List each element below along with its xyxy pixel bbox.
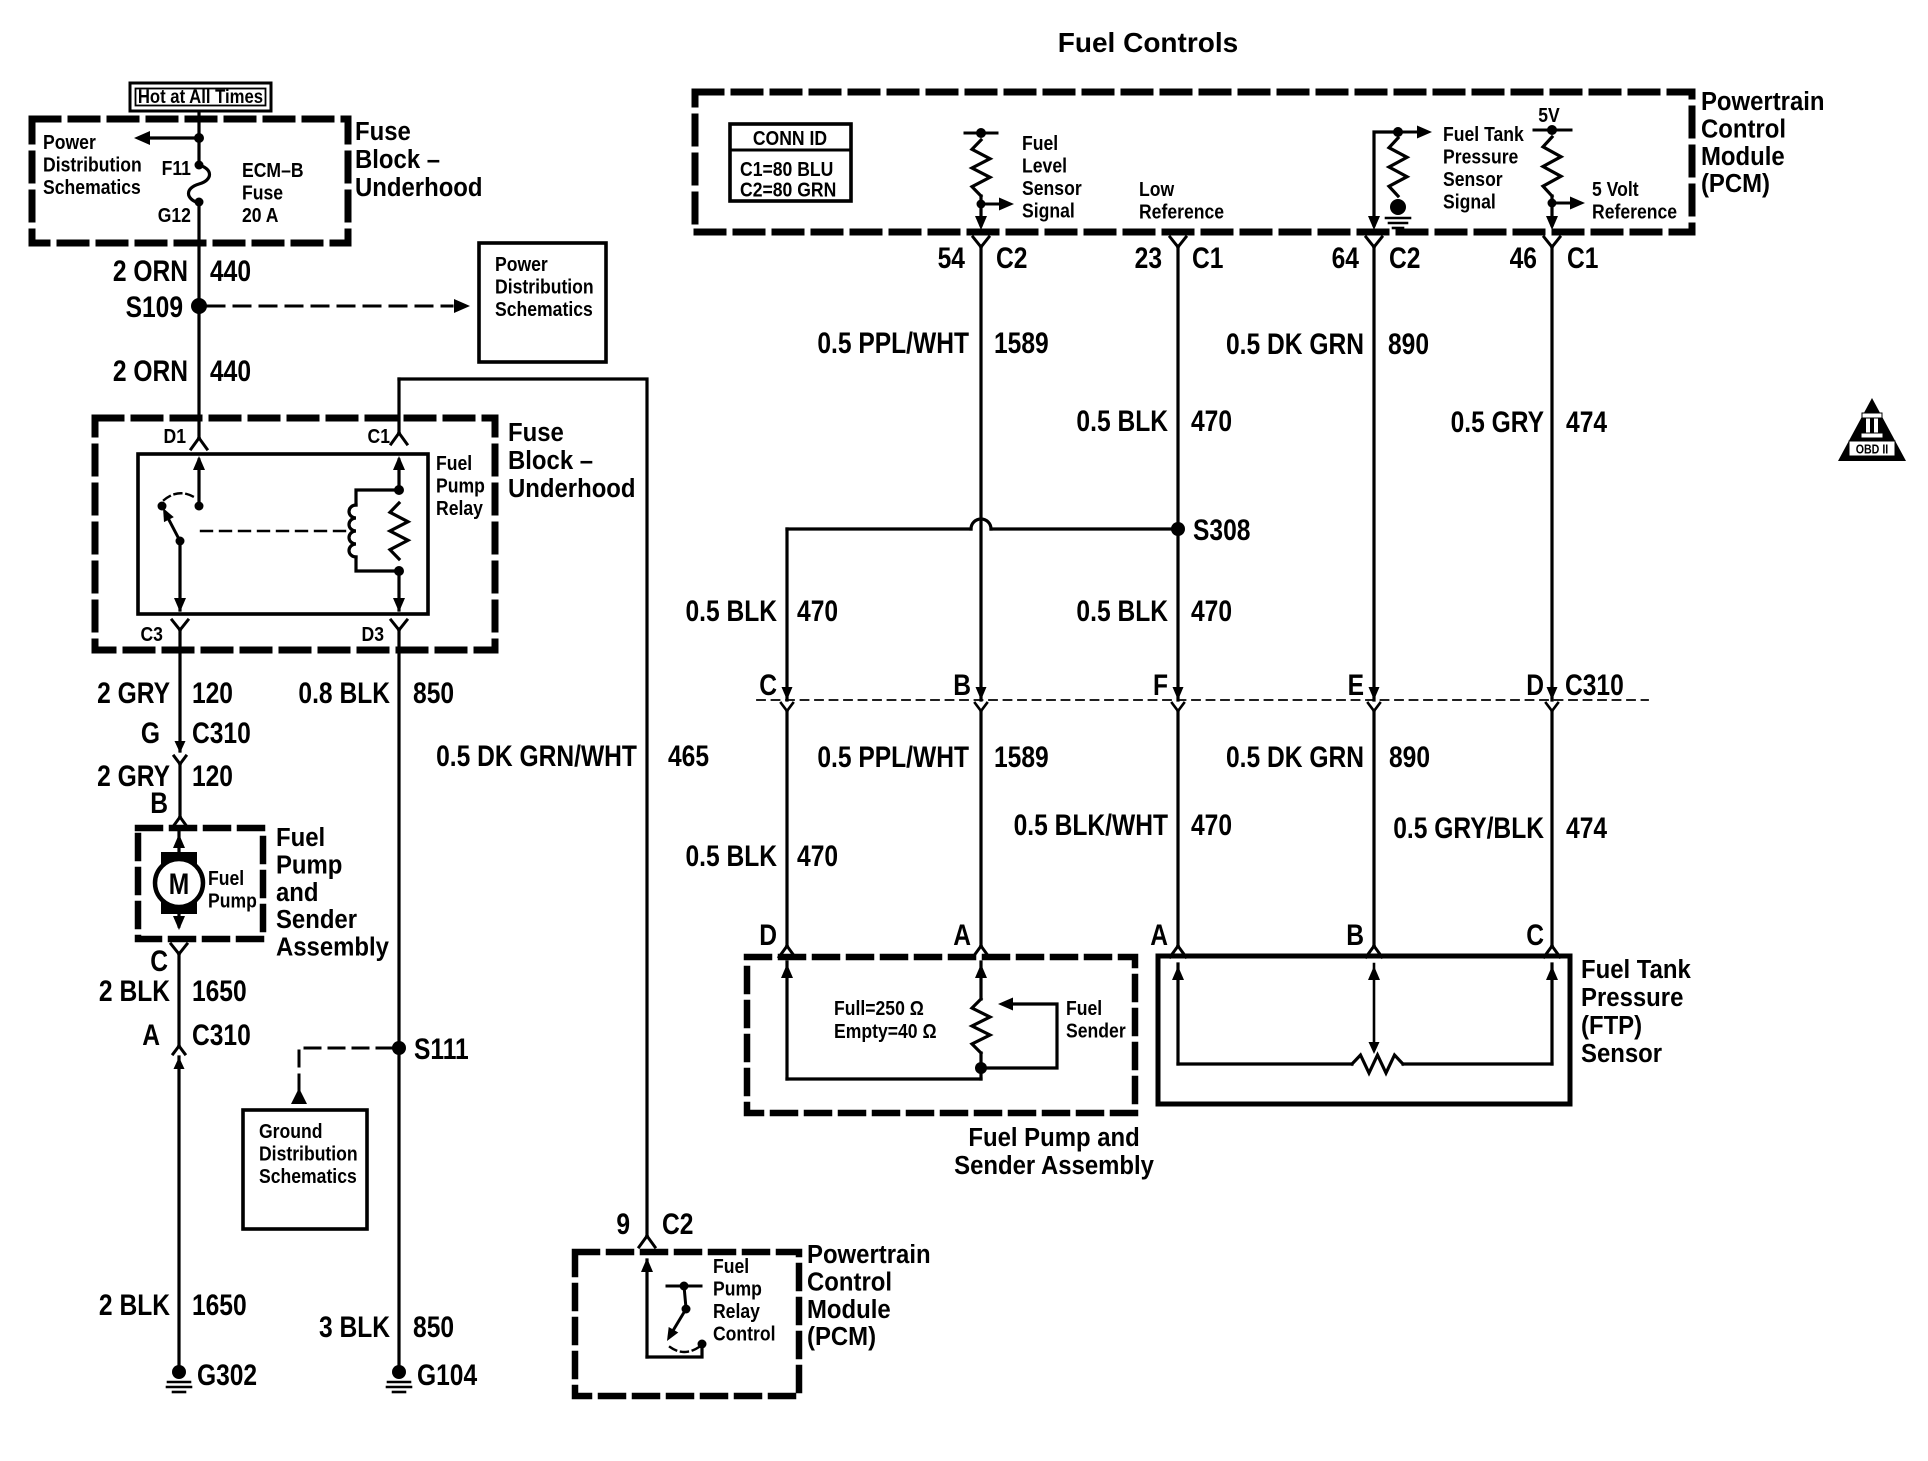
svg-text:G12: G12 xyxy=(158,204,191,226)
wire: relay C1 up and over to PCM pin 9 xyxy=(399,379,647,1235)
ground G104 xyxy=(392,1365,406,1379)
svg-text:5V: 5V xyxy=(1538,104,1560,126)
svg-text:Full=250 Ω: Full=250 Ω xyxy=(834,997,924,1019)
svg-text:C1=80 BLU: C1=80 BLU xyxy=(740,158,833,180)
svg-text:Pump: Pump xyxy=(713,1277,762,1299)
svg-text:0.5 BLK: 0.5 BLK xyxy=(1076,404,1168,438)
svg-text:(FTP): (FTP) xyxy=(1581,1011,1642,1040)
svg-text:C: C xyxy=(150,944,168,978)
svg-text:120: 120 xyxy=(192,759,233,793)
svg-text:Relay: Relay xyxy=(713,1300,760,1322)
svg-text:G104: G104 xyxy=(417,1358,478,1392)
svg-text:470: 470 xyxy=(797,594,838,628)
fuel pump relay control driver switch xyxy=(645,1260,648,1357)
svg-text:Fuse: Fuse xyxy=(508,418,564,447)
pin 54 C2 xyxy=(973,237,981,247)
svg-text:850: 850 xyxy=(413,676,454,710)
svg-text:C1: C1 xyxy=(368,425,390,447)
wire: branch arrow to power distribution (left) xyxy=(150,136,199,139)
relay switch (D1 to C3) xyxy=(197,460,200,506)
svg-text:D: D xyxy=(1526,668,1544,702)
dashed reference from S111 to ground distribution xyxy=(299,1048,392,1086)
svg-text:Module: Module xyxy=(1701,142,1785,171)
splice S308 and branch wire xyxy=(787,527,971,530)
svg-text:0.5 BLK: 0.5 BLK xyxy=(1076,594,1168,628)
relay coil and resistor (C1 to D3) xyxy=(397,460,400,490)
svg-text:Fuel: Fuel xyxy=(276,823,325,852)
svg-text:C1: C1 xyxy=(1567,241,1598,275)
svg-text:Schematics: Schematics xyxy=(259,1165,357,1187)
svg-text:Sensor: Sensor xyxy=(1443,168,1503,190)
svg-text:1650: 1650 xyxy=(192,974,247,1008)
svg-text:B: B xyxy=(953,668,971,702)
svg-text:C2: C2 xyxy=(1389,241,1420,275)
reference box: Ground Distribution Schematics xyxy=(243,1110,367,1229)
svg-text:474: 474 xyxy=(1566,405,1608,439)
svg-text:Fuse: Fuse xyxy=(355,117,411,146)
svg-text:G: G xyxy=(141,716,160,750)
svg-text:474: 474 xyxy=(1566,811,1608,845)
svg-text:9: 9 xyxy=(616,1207,630,1241)
svg-text:Sender: Sender xyxy=(1066,1019,1126,1041)
wire: pin 54 to connector C310 pin B (with hop at S308 line) xyxy=(979,246,982,700)
svg-text:1589: 1589 xyxy=(994,326,1049,360)
fuse block underhood dashed box (top) xyxy=(32,119,348,243)
svg-text:Schematics: Schematics xyxy=(495,298,593,320)
fuel level sensor pullup resistor xyxy=(965,132,997,135)
svg-text:2 GRY: 2 GRY xyxy=(97,676,170,710)
svg-text:890: 890 xyxy=(1389,740,1430,774)
pin 23 C1 xyxy=(1170,237,1178,247)
svg-text:0.5 DK GRN: 0.5 DK GRN xyxy=(1226,740,1364,774)
svg-text:C310: C310 xyxy=(192,716,251,750)
svg-text:Schematics: Schematics xyxy=(43,176,141,198)
wire: fuel pump C to C310 pin A xyxy=(177,953,180,1044)
svg-text:465: 465 xyxy=(668,739,709,773)
svg-text:C: C xyxy=(1526,918,1544,952)
svg-text:Sensor: Sensor xyxy=(1581,1039,1662,1068)
svg-text:A: A xyxy=(142,1018,160,1052)
svg-text:Underhood: Underhood xyxy=(508,474,635,503)
svg-text:470: 470 xyxy=(1191,808,1232,842)
svg-text:C1: C1 xyxy=(1192,241,1223,275)
pin 46 C1 xyxy=(1544,237,1552,247)
svg-text:850: 850 xyxy=(413,1310,454,1344)
svg-text:Fuse: Fuse xyxy=(242,181,283,203)
svg-text:0.5 GRY: 0.5 GRY xyxy=(1451,405,1544,439)
svg-text:Powertrain: Powertrain xyxy=(807,1240,931,1269)
fuse F11 ECM-B 20A xyxy=(195,161,204,170)
svg-text:120: 120 xyxy=(192,676,233,710)
svg-text:A: A xyxy=(1150,918,1168,952)
svg-text:Sender Assembly: Sender Assembly xyxy=(954,1151,1154,1180)
wire: pin 64 to C310 pin E xyxy=(1372,246,1375,700)
svg-text:and: and xyxy=(276,878,319,907)
svg-text:Control: Control xyxy=(713,1322,776,1344)
pin C fuel pump xyxy=(171,944,179,954)
svg-text:G302: G302 xyxy=(197,1358,257,1392)
svg-text:D: D xyxy=(759,918,777,952)
svg-text:B: B xyxy=(150,786,168,820)
svg-text:Distribution: Distribution xyxy=(43,153,142,175)
fuel sender variable resistor xyxy=(785,962,788,1079)
svg-text:Fuel: Fuel xyxy=(436,452,472,474)
svg-text:OBD II: OBD II xyxy=(1856,441,1889,456)
svg-text:470: 470 xyxy=(797,839,838,873)
wire: C310 to fuel pump B xyxy=(178,764,181,817)
svg-text:440: 440 xyxy=(210,254,251,288)
svg-text:470: 470 xyxy=(1191,594,1232,628)
svg-text:(PCM): (PCM) xyxy=(807,1322,876,1351)
svg-text:F: F xyxy=(1153,668,1168,702)
svg-text:46: 46 xyxy=(1510,241,1537,275)
svg-text:Pump: Pump xyxy=(208,889,257,911)
ground G302 xyxy=(172,1365,186,1379)
svg-text:1650: 1650 xyxy=(192,1288,247,1322)
fuel pump motor M xyxy=(177,832,180,852)
reference box: Power Distribution Schematics xyxy=(479,243,606,362)
svg-text:Power: Power xyxy=(495,253,548,275)
svg-text:Signal: Signal xyxy=(1022,199,1075,221)
svg-text:Fuel: Fuel xyxy=(1066,997,1102,1019)
svg-text:D3: D3 xyxy=(362,623,384,645)
svg-text:Power: Power xyxy=(43,131,96,153)
svg-text:470: 470 xyxy=(1191,404,1232,438)
svg-text:Fuel: Fuel xyxy=(208,867,244,889)
svg-text:Empty=40 Ω: Empty=40 Ω xyxy=(834,1020,937,1042)
connector C310 dashed line xyxy=(757,699,1648,701)
svg-text:Underhood: Underhood xyxy=(355,173,482,202)
svg-text:440: 440 xyxy=(210,354,251,388)
wire: hot feed into fuse block xyxy=(197,112,200,165)
svg-text:Fuel Controls: Fuel Controls xyxy=(1058,27,1238,58)
fuel tank pressure sensor input xyxy=(1374,132,1398,225)
svg-text:F11: F11 xyxy=(162,157,191,179)
svg-text:890: 890 xyxy=(1388,327,1429,361)
wire: C310 pin D to FTP pin C xyxy=(1550,711,1553,946)
FTP potentiometer xyxy=(1176,964,1179,1064)
svg-text:Relay: Relay xyxy=(436,497,483,519)
relay actuation dashed link xyxy=(201,530,345,532)
wire: C310 pin A to ground G302 xyxy=(177,1057,180,1366)
svg-text:Powertrain: Powertrain xyxy=(1701,87,1825,116)
svg-text:Level: Level xyxy=(1022,154,1067,176)
svg-text:(PCM): (PCM) xyxy=(1701,169,1770,198)
wire: S308 branch down to C310 pin C xyxy=(785,529,788,700)
svg-text:0.5 BLK: 0.5 BLK xyxy=(685,839,777,873)
label box: Hot at All Times xyxy=(130,83,271,111)
CONN ID table xyxy=(730,124,851,201)
svg-text:Fuel: Fuel xyxy=(1022,132,1058,154)
svg-text:2 BLK: 2 BLK xyxy=(99,974,170,1008)
svg-text:2 ORN: 2 ORN xyxy=(113,254,188,288)
svg-text:2 BLK: 2 BLK xyxy=(99,1288,170,1322)
svg-text:E: E xyxy=(1348,668,1364,702)
wire: C310 pin F to FTP pin A xyxy=(1176,711,1179,946)
fuel pump assembly dashed box xyxy=(138,828,263,939)
svg-text:Fuel Pump and: Fuel Pump and xyxy=(968,1123,1139,1152)
svg-text:C2: C2 xyxy=(996,241,1027,275)
svg-text:Pressure: Pressure xyxy=(1443,145,1518,167)
svg-text:Pump: Pump xyxy=(436,474,485,496)
wire: pin 46 to C310 pin D xyxy=(1550,246,1553,700)
svg-text:M: M xyxy=(169,867,189,901)
powertrain control module dashed box (top) xyxy=(695,92,1692,232)
svg-text:0.8 BLK: 0.8 BLK xyxy=(298,676,390,710)
svg-text:D1: D1 xyxy=(164,425,186,447)
svg-text:Reference: Reference xyxy=(1592,200,1677,222)
svg-text:C310: C310 xyxy=(1565,668,1624,702)
svg-text:C2: C2 xyxy=(662,1207,693,1241)
svg-text:0.5 GRY/BLK: 0.5 GRY/BLK xyxy=(1393,811,1544,845)
wire: S111 to ground G104 xyxy=(397,1048,400,1366)
svg-text:Hot at All Times: Hot at All Times xyxy=(138,86,263,107)
svg-text:64: 64 xyxy=(1332,241,1360,275)
svg-text:0.5 PPL/WHT: 0.5 PPL/WHT xyxy=(817,326,969,360)
svg-text:CONN ID: CONN ID xyxy=(753,127,827,149)
fuel pump and sender assembly dashed box xyxy=(747,957,1135,1113)
svg-text:Pressure: Pressure xyxy=(1581,983,1683,1012)
PCM bottom dashed box xyxy=(575,1252,799,1396)
svg-text:C3: C3 xyxy=(140,623,162,645)
svg-text:S308: S308 xyxy=(1193,513,1250,547)
svg-text:23: 23 xyxy=(1135,241,1162,275)
splice S111 xyxy=(392,1041,406,1055)
svg-text:C: C xyxy=(759,668,777,702)
wire: C310 pin E to FTP pin B xyxy=(1372,711,1375,946)
svg-text:Assembly: Assembly xyxy=(276,933,389,962)
svg-text:Control: Control xyxy=(1701,115,1786,144)
svg-text:C310: C310 xyxy=(192,1018,251,1052)
svg-text:Block –: Block – xyxy=(355,145,440,174)
svg-text:S111: S111 xyxy=(414,1032,469,1066)
pin 64 C2 xyxy=(1366,237,1374,247)
svg-text:Sensor: Sensor xyxy=(1022,177,1082,199)
svg-text:S109: S109 xyxy=(126,290,183,324)
svg-text:0.5 BLK/WHT: 0.5 BLK/WHT xyxy=(1014,808,1169,842)
wire: S109 to fuse block relay D1 xyxy=(197,306,200,437)
svg-text:Fuel Tank: Fuel Tank xyxy=(1581,955,1691,984)
fuel pump relay box xyxy=(138,454,428,614)
svg-text:20 A: 20 A xyxy=(242,204,279,226)
svg-text:0.5 BLK: 0.5 BLK xyxy=(685,594,777,628)
svg-text:ECM–B: ECM–B xyxy=(242,159,304,181)
svg-text:0.5 PPL/WHT: 0.5 PPL/WHT xyxy=(817,740,969,774)
svg-text:Block –: Block – xyxy=(508,446,593,475)
svg-text:2 ORN: 2 ORN xyxy=(113,354,188,388)
OBD II symbol xyxy=(1838,398,1906,461)
svg-text:Reference: Reference xyxy=(1139,200,1224,222)
svg-text:Low: Low xyxy=(1139,178,1175,200)
svg-text:5 Volt: 5 Volt xyxy=(1592,178,1639,200)
svg-text:Signal: Signal xyxy=(1443,190,1496,212)
svg-text:0.5 DK GRN: 0.5 DK GRN xyxy=(1226,327,1364,361)
wire: pin 23 to S308 and C310 pin F xyxy=(1176,246,1179,700)
svg-text:Fuel Tank: Fuel Tank xyxy=(1443,123,1524,145)
wire: C310 pin C to sender pin D xyxy=(785,711,788,946)
svg-text:Fuel: Fuel xyxy=(713,1255,749,1277)
splice S109 xyxy=(191,298,207,314)
svg-text:A: A xyxy=(953,918,971,952)
svg-text:C2=80 GRN: C2=80 GRN xyxy=(740,178,836,200)
svg-text:54: 54 xyxy=(938,241,966,275)
svg-text:Control: Control xyxy=(807,1268,892,1297)
svg-text:Sender: Sender xyxy=(276,905,357,934)
svg-text:Module: Module xyxy=(807,1295,891,1324)
fuel tank pressure sensor box xyxy=(1158,956,1570,1104)
wire: C3 down to connector C310 pin G xyxy=(178,629,181,751)
svg-text:3 BLK: 3 BLK xyxy=(319,1310,390,1344)
svg-text:Distribution: Distribution xyxy=(259,1142,358,1164)
svg-text:B: B xyxy=(1346,918,1364,952)
svg-text:Ground: Ground xyxy=(259,1120,323,1142)
fuse block underhood dashed box (relay) xyxy=(95,418,495,650)
svg-text:Distribution: Distribution xyxy=(495,275,594,297)
svg-text:Pump: Pump xyxy=(276,851,342,880)
svg-text:1589: 1589 xyxy=(994,740,1049,774)
dashed reference arrow from S109 xyxy=(208,305,452,308)
wire: C310 pin B to sender pin A xyxy=(979,711,982,946)
svg-text:0.5 DK GRN/WHT: 0.5 DK GRN/WHT xyxy=(436,739,637,773)
wire: D3 down to splice S111 xyxy=(397,629,400,1048)
wire: G12 to S109 xyxy=(197,202,200,306)
